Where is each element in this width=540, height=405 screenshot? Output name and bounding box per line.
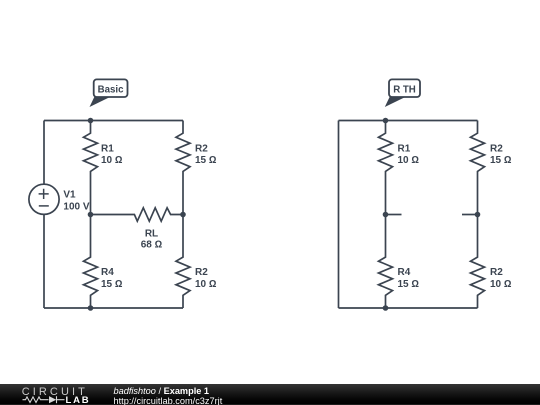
label R4	[101, 267, 123, 290]
svg-text:LAB: LAB	[66, 395, 91, 405]
label R2 10	[195, 267, 217, 290]
resistor R2 bottom-right (right circuit, branch)	[471, 215, 485, 309]
svg-text:15 Ω: 15 Ω	[490, 155, 512, 166]
resistor R4 (right circuit, branch)	[379, 215, 393, 309]
junction node: stub right	[475, 212, 481, 218]
junction node: RL / right branch	[180, 212, 186, 218]
svg-text:V1: V1	[63, 190, 76, 201]
label R4 (right)	[398, 267, 420, 290]
svg-text:15 Ω: 15 Ω	[195, 155, 217, 166]
resistor RL (middle wire)	[91, 208, 184, 221]
svg-text:R1: R1	[398, 143, 411, 154]
junction node: bottom rail / R4 (right)	[383, 305, 389, 311]
resistor R2 top-right (branch)	[176, 121, 190, 215]
junction node: top rail / R1	[88, 118, 94, 124]
svg-text:10 Ω: 10 Ω	[490, 279, 512, 290]
svg-text:68 Ω: 68 Ω	[141, 240, 163, 251]
svg-text:RL: RL	[145, 229, 158, 240]
junction node: bottom rail / R4	[88, 305, 94, 311]
wire: left circuit top rail	[44, 120, 183, 122]
label R1 (right)	[398, 143, 420, 166]
label R2 15	[195, 143, 217, 166]
wire: left circuit left rail upper (to V1 top)	[43, 121, 45, 184]
resistor R2 top-right (right circuit)	[471, 121, 485, 215]
svg-text:10 Ω: 10 Ω	[195, 279, 217, 290]
svg-text:R2: R2	[195, 267, 208, 278]
svg-text:R4: R4	[101, 267, 114, 278]
credits text	[113, 383, 115, 385]
junction node: R1 / RL / R4	[88, 212, 94, 218]
svg-text:100 V: 100 V	[63, 202, 89, 213]
logo mini circuit: wire resistor diode	[23, 396, 65, 403]
svg-text:R2: R2	[490, 143, 503, 154]
label R2 10 (right)	[490, 267, 512, 290]
label RL	[141, 229, 163, 251]
junction node: stub left	[383, 212, 389, 218]
svg-text:15 Ω: 15 Ω	[398, 279, 420, 290]
svg-text:10 Ω: 10 Ω	[101, 155, 123, 166]
callout R TH	[385, 79, 420, 107]
svg-text:R TH: R TH	[393, 85, 416, 96]
CircuitLab logo	[0, 384, 110, 405]
label R1	[101, 143, 123, 166]
svg-text:R1: R1	[101, 143, 114, 154]
resistor R1 right circuit (branch)	[379, 121, 393, 215]
wire: right circuit top rail	[339, 120, 478, 122]
svg-text:R4: R4	[398, 267, 411, 278]
wire: open stub right (RL removed)	[462, 214, 478, 216]
resistor R4 (branch)	[84, 215, 98, 309]
callout Basic	[90, 79, 128, 107]
label R2 15 (right)	[490, 143, 512, 166]
wire: left circuit bottom rail	[44, 307, 183, 309]
resistor R2 bottom-right (branch)	[176, 215, 190, 309]
wire: open stub left (RL removed)	[386, 214, 402, 216]
svg-text:10 Ω: 10 Ω	[398, 155, 420, 166]
junction node: top rail / R1 (right)	[383, 118, 389, 124]
resistor R1 (branch)	[84, 121, 98, 215]
svg-text:R2: R2	[490, 267, 503, 278]
svg-text:R2: R2	[195, 143, 208, 154]
wire: right circuit bottom rail	[339, 307, 478, 309]
footer bar	[0, 384, 540, 405]
wire: right circuit left rail	[338, 121, 340, 309]
voltage source V1	[29, 184, 59, 214]
wire: left circuit left rail lower (V1 bottom to bottom rail)	[43, 215, 45, 309]
svg-text:15 Ω: 15 Ω	[101, 279, 123, 290]
label V1 value	[63, 190, 89, 213]
svg-text:Basic: Basic	[98, 85, 124, 96]
